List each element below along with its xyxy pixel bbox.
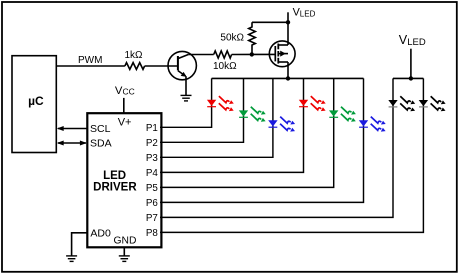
LED D4 red: [299, 96, 326, 111]
wire VLED down to Q2 drain: [287, 12, 289, 45]
node source junction on rail: [286, 76, 290, 80]
wire SDA double arrow: [58, 142, 86, 144]
wire LED anode rail: [212, 77, 364, 79]
svg-text:AD0: AD0: [90, 228, 111, 240]
node VLED junction: [286, 20, 290, 24]
LED D2 green: [239, 107, 266, 122]
wire R2 to gate node and Q2 gate: [232, 53, 276, 55]
LED D1 red: [207, 96, 234, 111]
wire P3 to LED D3: [160, 78, 273, 157]
wire P5 to LED D5: [160, 78, 334, 187]
svg-text:P8: P8: [146, 228, 159, 239]
svg-text:P5: P5: [146, 183, 159, 194]
wire P8 to LED D8: [160, 78, 423, 232]
svg-text:DRIVER: DRIVER: [93, 182, 137, 194]
LED D7 white: [388, 96, 415, 111]
wire Q1 collector to R2: [188, 54, 213, 56]
wire 50kΩ top to VLED: [252, 21, 288, 23]
wire AD0 to ground: [72, 233, 88, 256]
svg-text:µC: µC: [28, 94, 44, 108]
wire P7 to LED D7: [160, 78, 393, 217]
wire P1 to LED D1: [160, 78, 212, 127]
svg-text:GND: GND: [114, 236, 137, 247]
node VLED right junction: [409, 76, 413, 80]
svg-text:P1: P1: [146, 123, 158, 134]
svg-text:PWM: PWM: [78, 55, 102, 66]
svg-text:P7: P7: [146, 213, 158, 224]
svg-text:V+: V+: [118, 117, 132, 129]
LED D6 blue: [359, 117, 386, 132]
LED driver U1 box: [87, 113, 161, 247]
svg-text:LED: LED: [103, 170, 126, 182]
transistor Q2 PMOS: [269, 41, 295, 67]
ground under Q1: [181, 95, 192, 101]
svg-text:VLED: VLED: [293, 7, 316, 19]
LED D8 white: [419, 96, 446, 111]
svg-text:10kΩ: 10kΩ: [213, 61, 237, 72]
resistor R3 50kΩ (vertical): [249, 22, 256, 54]
svg-text:50kΩ: 50kΩ: [220, 33, 244, 44]
svg-text:P4: P4: [146, 168, 159, 179]
svg-text:P3: P3: [146, 153, 159, 164]
svg-text:P6: P6: [146, 198, 159, 209]
svg-text:1kΩ: 1kΩ: [124, 50, 143, 61]
svg-text:SCL: SCL: [90, 123, 111, 135]
wire GND pin to ground: [123, 247, 125, 256]
svg-text:P2: P2: [146, 138, 158, 149]
wire Q2 source to LED rail: [287, 62, 289, 78]
wire VLED right down: [410, 49, 412, 79]
svg-text:VLED: VLED: [399, 33, 426, 48]
wire PWM from µC to R1: [56, 65, 125, 67]
wire VCC to V+ pin: [123, 98, 125, 113]
wire P2 to LED D2: [160, 78, 244, 142]
wire R1 to Q1 base: [145, 65, 178, 67]
wire Q1 emitter to ground: [185, 76, 187, 95]
resistor R1 1kΩ: [125, 63, 145, 70]
LED D5 green: [329, 107, 356, 122]
ground at GND: [119, 256, 130, 262]
LED D3 blue: [268, 117, 295, 132]
resistor R2 10kΩ: [214, 51, 232, 58]
svg-text:VCC: VCC: [115, 85, 135, 97]
microcontroller µC box: [12, 56, 56, 153]
wire P4 to LED D4: [160, 78, 304, 172]
wire P6 to LED D6: [160, 78, 364, 202]
ground at AD0: [66, 256, 77, 262]
node gate junction: [250, 52, 254, 56]
transistor Q1 NPN: [168, 51, 196, 79]
svg-text:SDA: SDA: [90, 138, 112, 150]
wire SCL with arrow to µC: [58, 128, 87, 130]
wire white LED rail: [393, 77, 423, 79]
